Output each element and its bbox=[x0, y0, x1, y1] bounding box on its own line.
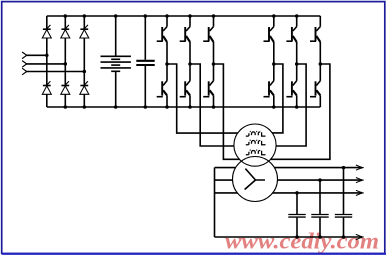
junction bottom bus (115.7,107) bbox=[114, 105, 118, 109]
wire filter capacitor C3 top lead bbox=[343, 168, 345, 215]
machine M circle outline bbox=[233, 157, 278, 202]
wire inverter leg 5 midpoint segment bbox=[296, 42, 298, 81]
capacitor C3 (output filter) bbox=[335, 215, 352, 218]
machine M star (Y) symbol bbox=[245, 169, 265, 190]
IGBT Q4 (leg 2 bottom) bbox=[180, 81, 190, 97]
wire inverter leg 5 emitter segment bbox=[296, 95, 298, 107]
wire inverter leg 3 collector segment bbox=[213, 16, 215, 27]
wire inverter leg 1 phase branch bbox=[167, 64, 250, 133]
wire inverter leg 1 emitter segment bbox=[166, 95, 168, 107]
junction bottom bus (84.3,107) bbox=[83, 105, 87, 109]
arrow input phase 2 bbox=[22, 61, 27, 68]
capacitor C1 (output filter) bbox=[288, 215, 305, 218]
IGBT Q7 (leg 4 top) bbox=[264, 27, 274, 42]
wire inverter leg 1 collector segment bbox=[166, 16, 168, 27]
wire inverter leg 3 midpoint segment bbox=[213, 42, 215, 81]
junction bottom bus (213.5,107) bbox=[212, 105, 216, 109]
wire filter capacitor C2 bottom lead bbox=[319, 218, 321, 237]
junction bottom bus (190.0,107) bbox=[188, 105, 192, 109]
junction top bus (213.5,16) bbox=[212, 14, 216, 18]
wire filter capacitor C1 top lead bbox=[296, 193, 298, 214]
wire inverter leg 4 phase branch bbox=[260, 64, 283, 133]
thyristor V1 (top) bbox=[42, 25, 51, 38]
wire filter capacitor C3 bottom lead bbox=[343, 218, 345, 237]
capacitor C2 (output filter) bbox=[311, 215, 328, 218]
junction top bus (65.3,16) bbox=[64, 14, 68, 18]
IGBT Q12 (leg 6 bottom) bbox=[310, 81, 320, 97]
thyristor V3 (top) bbox=[80, 25, 89, 38]
IGBT Q10 (leg 5 bottom) bbox=[286, 81, 296, 97]
wire bottom output rail bbox=[215, 236, 362, 238]
wire inverter leg 6 emitter segment bbox=[319, 95, 321, 107]
wire filter capacitor C1 bottom lead bbox=[296, 218, 298, 237]
junction top bus (273.8,16) bbox=[272, 14, 276, 18]
junction bottom bus (273.8,107) bbox=[272, 105, 276, 109]
wire top DC bus bbox=[47, 15, 321, 17]
wire inverter leg 3 emitter segment bbox=[213, 95, 215, 107]
wire DC-link capacitor top lead bbox=[144, 16, 146, 60]
thyristor V6 (bottom) bbox=[80, 81, 89, 94]
junction input 1 (46.8,55.3) bbox=[45, 54, 49, 58]
junction top bus (296.7,16) bbox=[295, 14, 299, 18]
wire bottom DC bus bbox=[47, 106, 321, 108]
wire inverter leg 6 midpoint segment bbox=[319, 42, 321, 81]
wire machine phase line 1 (to output arrow 1) bbox=[215, 167, 362, 169]
junction rail/C2 (320.0,237) bbox=[318, 235, 322, 239]
wire inverter leg 1 midpoint segment bbox=[166, 42, 168, 81]
thyristor V5 (bottom) bbox=[61, 81, 70, 94]
thyristor V2 (top) bbox=[61, 25, 70, 38]
junction bottom bus (145.3,107) bbox=[144, 105, 148, 109]
IGBT Q11 (leg 6 top) bbox=[310, 27, 320, 42]
IGBT Q2 (leg 1 bottom) bbox=[157, 81, 167, 97]
junction input 2 (65.3,63.9) bbox=[64, 62, 68, 66]
wire inverter leg 4 emitter segment bbox=[273, 95, 275, 107]
wire inverter leg 2 midpoint segment bbox=[189, 42, 191, 81]
wire DC-link capacitor bottom lead bbox=[144, 66, 146, 107]
arrow output 4 bbox=[356, 234, 364, 239]
wire machine phase line 3 (to output arrow 3) bbox=[215, 192, 362, 194]
junction leg midpoint (213.5,64) bbox=[212, 62, 216, 66]
IGBT Q1 (leg 1 top) bbox=[157, 27, 167, 42]
capacitor C0 (DC link) bbox=[136, 61, 154, 65]
wire inverter leg 6 phase branch bbox=[260, 64, 330, 159]
transformer T1 circle outline bbox=[234, 124, 276, 166]
IGBT Q6 (leg 3 bottom) bbox=[203, 81, 213, 97]
junction rail/C1 (297.0,237) bbox=[295, 235, 299, 239]
IGBT Q8 (leg 4 bottom) bbox=[264, 81, 274, 97]
junction top bus (115.7,16) bbox=[114, 14, 118, 18]
wire 3-phase input line 2 bbox=[26, 63, 65, 65]
transformer T1 winding row 3 bbox=[246, 150, 266, 155]
wire inverter leg 3 phase branch bbox=[214, 64, 251, 159]
transformer T1 circle bbox=[234, 124, 276, 166]
junction top bus (167.0,16) bbox=[165, 14, 169, 18]
IGBT Q3 (leg 2 top) bbox=[180, 27, 190, 42]
wire inverter leg 6 collector segment bbox=[319, 16, 321, 27]
transformer T1 winding row 2 bbox=[246, 140, 266, 145]
junction line2/C2 (320.0,180.1) bbox=[318, 178, 322, 182]
wire inverter leg 5 phase branch bbox=[260, 64, 306, 146]
junction top bus (190.0,16) bbox=[188, 14, 192, 18]
junction input 3 (84.3,71.5) bbox=[83, 70, 87, 74]
thyristor V4 (bottom) bbox=[42, 81, 51, 94]
IGBT Q5 (leg 3 top) bbox=[203, 27, 213, 42]
junction bottom bus (167.0,107) bbox=[165, 105, 169, 109]
wire inverter leg 5 collector segment bbox=[296, 16, 298, 27]
arrow output 1 bbox=[356, 165, 364, 170]
IGBT Q9 (leg 5 top) bbox=[286, 27, 296, 42]
wire inverter leg 2 emitter segment bbox=[189, 95, 191, 107]
wire 3-phase input line 1 bbox=[26, 54, 46, 56]
junction top bus (145.3,16) bbox=[144, 14, 148, 18]
wire rectifier leg 1 vertical bbox=[46, 16, 48, 107]
svg-text:www.cediy.com: www.cediy.com bbox=[225, 229, 379, 254]
wire battery positive lead bbox=[115, 16, 117, 56]
machine M circle bbox=[233, 157, 278, 202]
wire machine left vertical (neutral drop) bbox=[214, 168, 216, 237]
junction line3/C1 (297.0,192.9) bbox=[295, 191, 299, 195]
junction leg midpoint (320.3,64) bbox=[319, 62, 323, 66]
wire inverter leg 4 collector segment bbox=[273, 16, 275, 27]
arrow input phase 1 bbox=[22, 52, 27, 59]
wire inverter leg 2 phase branch bbox=[190, 64, 250, 146]
battery GB (DC link) bbox=[101, 56, 131, 71]
wire rectifier leg 2 vertical bbox=[64, 16, 66, 107]
junction line1/C3 (343.5,167.6) bbox=[342, 166, 346, 170]
transformer T1 winding row 1 bbox=[246, 132, 266, 137]
junction leg midpoint (167.0,64) bbox=[165, 62, 169, 66]
wire rectifier leg 3 vertical bbox=[83, 16, 85, 107]
wire machine phase line 2 (to output arrow 2) bbox=[215, 179, 362, 181]
junction leg midpoint (190.0,64) bbox=[188, 62, 192, 66]
arrow output 2 bbox=[356, 178, 364, 183]
wire inverter leg 2 collector segment bbox=[189, 16, 191, 27]
junction rail/C3 (343.5,237) bbox=[342, 235, 346, 239]
arrow input phase 3 bbox=[22, 68, 27, 75]
junction leg midpoint (273.8,64) bbox=[272, 62, 276, 66]
junction bottom bus (65.3,107) bbox=[64, 105, 68, 109]
junction bottom bus (296.7,107) bbox=[295, 105, 299, 109]
junction leg midpoint (296.7,64) bbox=[295, 62, 299, 66]
junction top bus (84.3,16) bbox=[83, 14, 87, 18]
arrow output 3 bbox=[356, 190, 364, 195]
wire battery negative lead bbox=[115, 71, 117, 107]
wire filter capacitor C2 top lead bbox=[319, 180, 321, 214]
wire inverter leg 4 midpoint segment bbox=[273, 42, 275, 81]
wire 3-phase input line 3 bbox=[26, 71, 84, 73]
